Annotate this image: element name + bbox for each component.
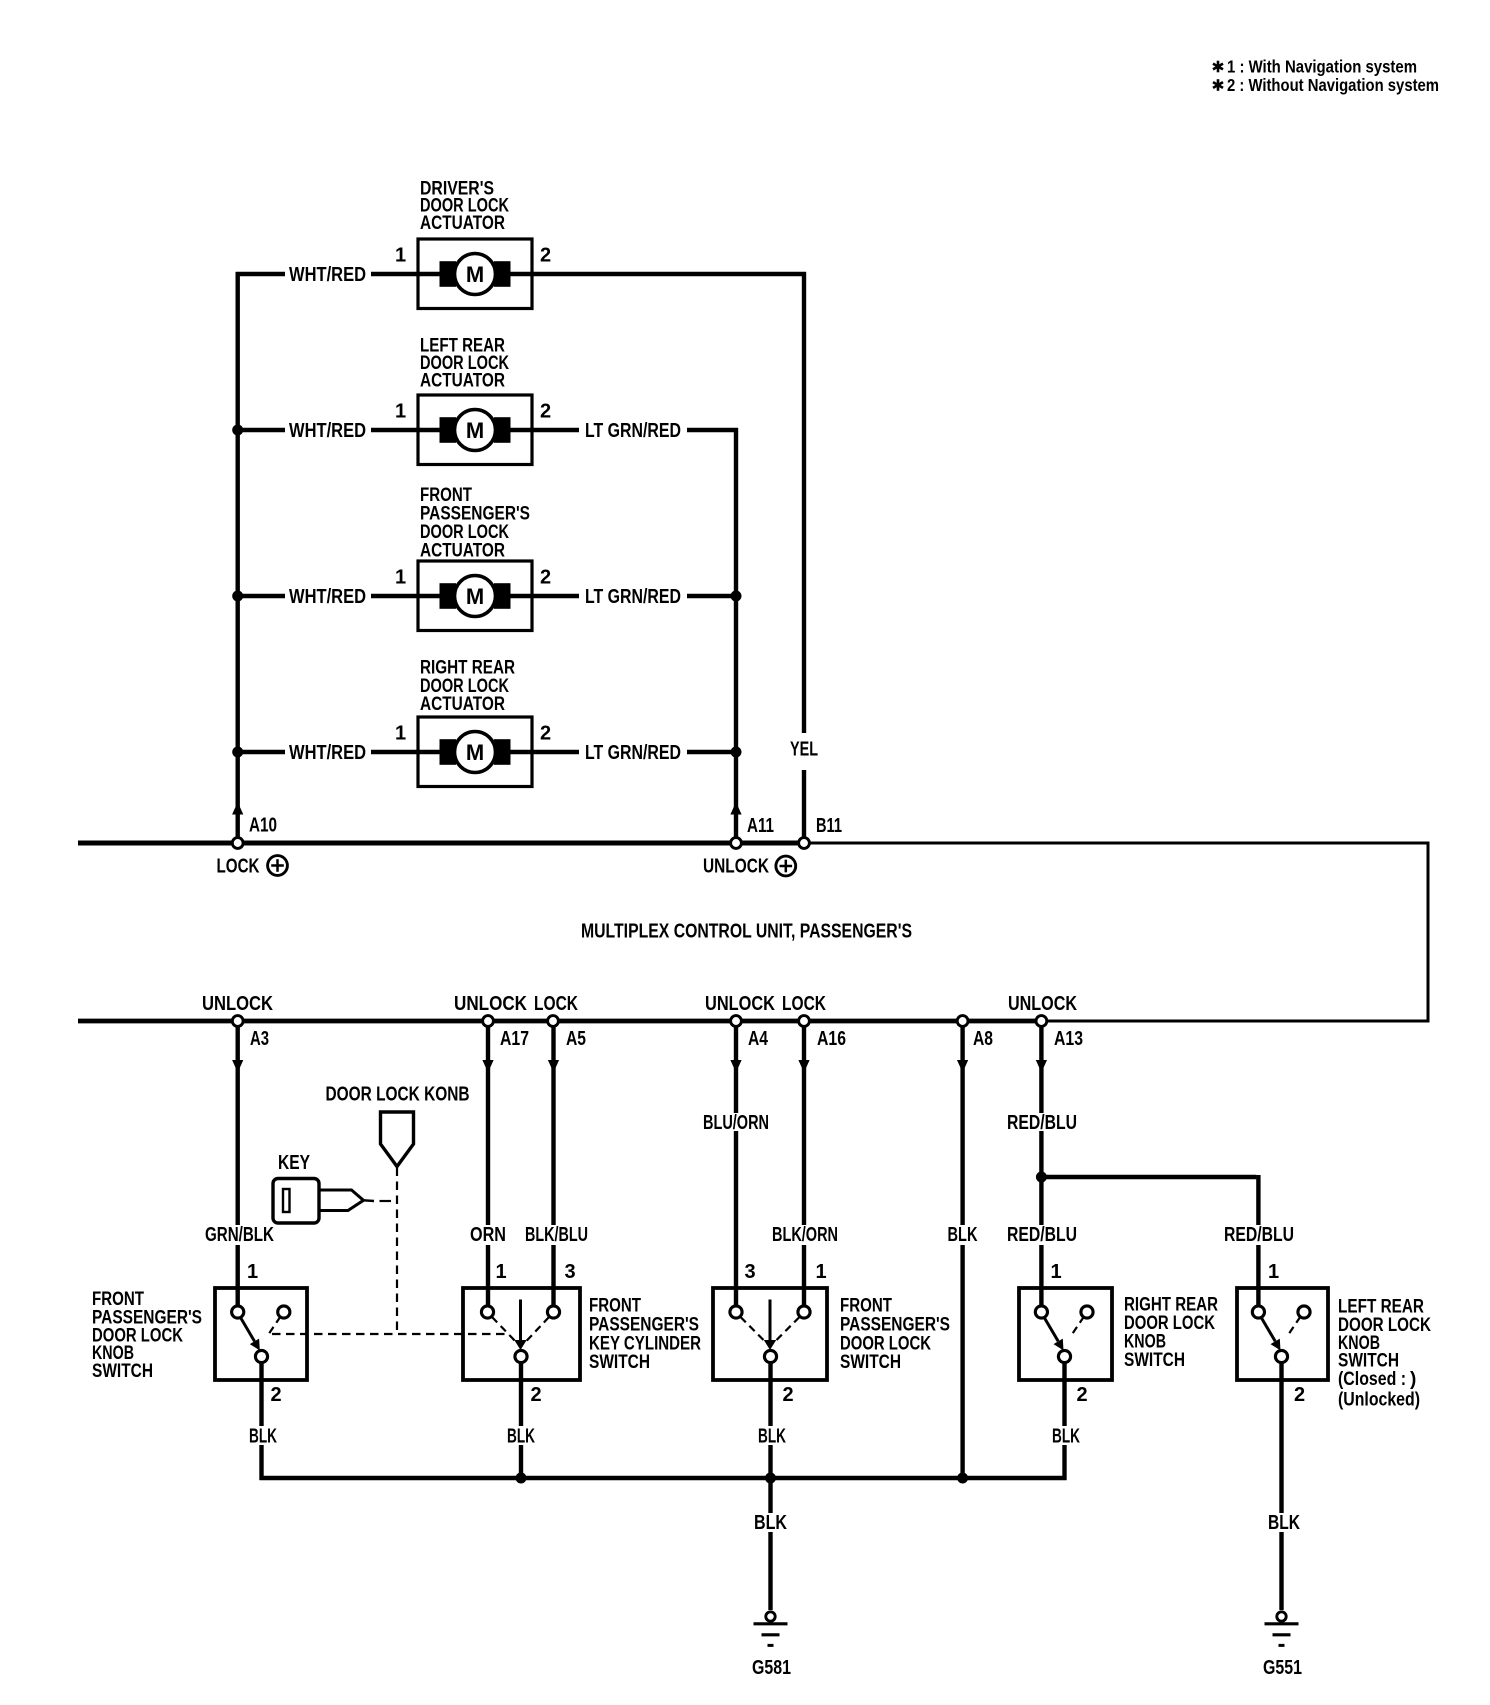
svg-text:YEL: YEL xyxy=(790,739,818,761)
svg-text:LOCK: LOCK xyxy=(217,856,260,878)
svg-text:): ) xyxy=(1410,1369,1416,1390)
motor: front passenger's door lock actuator M xyxy=(418,561,532,631)
svg-text:2: 2 xyxy=(1076,1384,1087,1406)
svg-text:BLK/BLU: BLK/BLU xyxy=(525,1224,588,1246)
junction xyxy=(516,1473,527,1484)
svg-text:DOOR LOCK KONB: DOOR LOCK KONB xyxy=(326,1084,470,1106)
junction xyxy=(731,747,742,758)
label WHT/RED xyxy=(289,420,366,442)
pin 2 xyxy=(540,723,551,745)
pin 1 xyxy=(395,567,406,589)
junction xyxy=(232,591,243,602)
label RED/BLU xyxy=(1224,1224,1294,1246)
svg-text:BLK: BLK xyxy=(249,1426,277,1448)
svg-text:SWITCH: SWITCH xyxy=(92,1361,153,1382)
svg-text:MULTIPLEX CONTROL UNIT, PASSEN: MULTIPLEX CONTROL UNIT, PASSENGER'S xyxy=(581,921,912,943)
mechanical linkage (dashed) knob/key to switches xyxy=(272,1168,508,1335)
svg-text:M: M xyxy=(466,584,484,609)
wire BLK (A8 to ground bus) xyxy=(960,1027,964,1476)
svg-text:ACTUATOR: ACTUATOR xyxy=(420,694,505,715)
svg-text:UNLOCK: UNLOCK xyxy=(202,993,273,1015)
pin 1 xyxy=(815,1261,826,1283)
wire BLU/ORN (A4 to door lock switch pin 3) xyxy=(734,1027,738,1306)
svg-text:UNLOCK: UNLOCK xyxy=(1008,993,1077,1015)
label DOOR LOCK KONB xyxy=(326,1084,470,1106)
label LT GRN/RED xyxy=(585,586,681,608)
svg-text:2: 2 xyxy=(270,1384,281,1406)
svg-text:1: 1 xyxy=(1268,1261,1279,1283)
svg-text:BLU/ORN: BLU/ORN xyxy=(703,1112,769,1134)
svg-text:1: 1 xyxy=(395,245,406,267)
node A10 xyxy=(232,815,277,849)
svg-text:1: 1 xyxy=(395,723,406,745)
svg-text:A11: A11 xyxy=(747,815,774,837)
ground G581 xyxy=(752,1612,791,1679)
switch: front passenger's key cylinder switch xyxy=(463,1288,580,1380)
node A13 xyxy=(1036,1016,1083,1050)
multiplex control unit, passenger's (box) xyxy=(78,843,1430,1021)
label BLU/ORN xyxy=(703,1112,769,1134)
svg-text:ACTUATOR: ACTUATOR xyxy=(420,371,505,392)
label UNLOCK xyxy=(705,993,775,1015)
svg-text:FRONT: FRONT xyxy=(840,1295,892,1316)
flow arrow xyxy=(1036,1060,1047,1073)
pin 2 xyxy=(540,245,551,267)
svg-text:1: 1 xyxy=(395,567,406,589)
pin 2 xyxy=(782,1384,793,1406)
label YEL xyxy=(790,739,818,761)
label GRN/BLK xyxy=(205,1224,274,1246)
svg-text:RED/BLU: RED/BLU xyxy=(1007,1224,1077,1246)
svg-text:RED/BLU: RED/BLU xyxy=(1224,1224,1294,1246)
wire WHT/RED xyxy=(236,594,418,598)
svg-text:LOCK: LOCK xyxy=(782,993,826,1015)
wire BLK (door lock switch pin 2 to ground G581) xyxy=(768,1363,772,1610)
svg-text:2 : Without Navigation system: 2 : Without Navigation system xyxy=(1227,75,1439,95)
svg-text:LT GRN/RED: LT GRN/RED xyxy=(585,742,681,764)
note: navigation system legend xyxy=(1213,57,1439,96)
svg-text:2: 2 xyxy=(540,245,551,267)
wire BLK (right rear knob switch pin 2 to ground bus) xyxy=(1062,1363,1066,1480)
svg-text:1: 1 xyxy=(495,1261,506,1283)
svg-text:KEY CYLINDER: KEY CYLINDER xyxy=(589,1333,701,1354)
label left rear door lock knob switch name xyxy=(1338,1297,1431,1411)
wire BLK (knob switch pin 2 to ground bus) xyxy=(259,1363,263,1480)
label BLK xyxy=(948,1224,978,1246)
flow arrow xyxy=(548,1060,559,1073)
svg-text:A10: A10 xyxy=(249,815,277,837)
wire WHT/RED xyxy=(236,750,418,754)
svg-text:WHT/RED: WHT/RED xyxy=(289,586,366,608)
wire BLK/BLU (A5 to key cylinder pin 3) xyxy=(551,1027,555,1306)
pin 2 xyxy=(270,1384,281,1406)
node A8 xyxy=(957,1016,993,1050)
svg-text:WHT/RED: WHT/RED xyxy=(289,264,366,286)
label front passenger's key cylinder switch name xyxy=(589,1295,701,1373)
wire BLK ground bus xyxy=(260,1476,1067,1480)
svg-text:2: 2 xyxy=(530,1384,541,1406)
wire RED/BLU branch to left rear switch xyxy=(1041,1175,1258,1306)
label LT GRN/RED xyxy=(585,742,681,764)
label RED/BLU xyxy=(1007,1112,1077,1134)
flow arrow xyxy=(232,1060,243,1073)
motor: right rear door lock actuator M xyxy=(418,717,532,787)
label UNLOCK xyxy=(202,993,273,1015)
label front passenger's door lock knob switch name xyxy=(92,1289,202,1382)
node A17 xyxy=(483,1016,529,1050)
svg-text:UNLOCK: UNLOCK xyxy=(703,856,769,878)
pin 1 xyxy=(395,245,406,267)
pin 1 xyxy=(247,1261,258,1283)
label RED/BLU xyxy=(1007,1224,1077,1246)
wire RED/BLU (A13 to rear knob switches) xyxy=(1039,1027,1043,1306)
wire WHT/RED xyxy=(236,272,418,276)
junction xyxy=(1036,1172,1047,1183)
door lock knob symbol xyxy=(381,1112,414,1167)
label LOCK xyxy=(782,993,826,1015)
svg-text:A16: A16 xyxy=(817,1028,846,1050)
pin 2 xyxy=(540,567,551,589)
svg-text:A3: A3 xyxy=(250,1028,269,1050)
motor: left rear door lock actuator M xyxy=(418,395,532,465)
pin 3 xyxy=(564,1261,575,1283)
svg-text:M: M xyxy=(466,262,484,287)
label right rear door lock knob switch name xyxy=(1124,1295,1218,1372)
label WHT/RED xyxy=(289,264,366,286)
svg-text:SWITCH: SWITCH xyxy=(840,1352,901,1373)
label LOCK + xyxy=(217,856,288,878)
label WHT/RED xyxy=(289,586,366,608)
svg-text:LT GRN/RED: LT GRN/RED xyxy=(585,420,681,442)
flow arrow xyxy=(730,1060,741,1073)
junction xyxy=(232,747,243,758)
wire LT GRN/RED xyxy=(532,428,738,432)
pin 1 xyxy=(495,1261,506,1283)
wire WHT/RED lock feed (A10 column) xyxy=(235,272,239,837)
pin 2 xyxy=(1294,1384,1305,1406)
flow arrow xyxy=(482,1060,493,1073)
svg-text:A8: A8 xyxy=(973,1028,993,1050)
wire LT GRN/RED xyxy=(532,594,738,598)
node A3 xyxy=(232,1016,269,1050)
svg-text:PASSENGER'S: PASSENGER'S xyxy=(589,1314,699,1335)
svg-text:RED/BLU: RED/BLU xyxy=(1007,1112,1077,1134)
label BLK xyxy=(754,1512,787,1534)
flow arrow xyxy=(957,1060,968,1073)
svg-text:1: 1 xyxy=(815,1261,826,1283)
label BLK xyxy=(507,1426,535,1448)
svg-text:WHT/RED: WHT/RED xyxy=(289,742,366,764)
svg-text:PASSENGER'S: PASSENGER'S xyxy=(840,1314,950,1335)
junction xyxy=(731,591,742,602)
pin 2 xyxy=(1076,1384,1087,1406)
label driver's door lock actuator name xyxy=(420,178,509,233)
pin 1 xyxy=(1050,1261,1061,1283)
svg-text:A17: A17 xyxy=(500,1028,529,1050)
svg-text:SWITCH: SWITCH xyxy=(1124,1350,1185,1371)
svg-text:1: 1 xyxy=(247,1261,258,1283)
flow arrow at A10 xyxy=(232,802,243,815)
wire LT GRN/RED unlock collector (A11 column) xyxy=(734,428,738,837)
ground G551 xyxy=(1263,1612,1302,1679)
label BLK xyxy=(758,1426,786,1448)
key symbol xyxy=(273,1179,374,1224)
node A5 xyxy=(548,1016,586,1050)
label BLK xyxy=(249,1426,277,1448)
flow arrow at A11 xyxy=(730,802,741,815)
label ORN xyxy=(470,1224,506,1246)
label KEY xyxy=(278,1152,311,1174)
svg-text:DOOR LOCK: DOOR LOCK xyxy=(840,1333,931,1354)
svg-text:B11: B11 xyxy=(816,815,842,837)
svg-text:KEY: KEY xyxy=(278,1152,311,1174)
wire LT GRN/RED xyxy=(532,750,738,754)
flow arrow xyxy=(798,1060,809,1073)
pin 1 xyxy=(1268,1261,1279,1283)
svg-text:M: M xyxy=(466,740,484,765)
svg-text:BLK: BLK xyxy=(1052,1426,1080,1448)
junction xyxy=(232,425,243,436)
svg-text:WHT/RED: WHT/RED xyxy=(289,420,366,442)
switch: front passenger's door lock switch xyxy=(713,1288,827,1380)
label LT GRN/RED xyxy=(585,420,681,442)
svg-text:ACTUATOR: ACTUATOR xyxy=(420,541,505,562)
wire BLK (left rear knob switch pin 2 to ground G551) xyxy=(1279,1363,1283,1610)
label right rear door lock actuator name xyxy=(420,658,515,715)
label front passenger's door lock actuator name xyxy=(420,485,530,562)
svg-text:BLK: BLK xyxy=(948,1224,978,1246)
svg-text:FRONT: FRONT xyxy=(589,1295,641,1316)
label UNLOCK xyxy=(454,993,527,1015)
wire BLK/ORN (A16 to door lock switch pin 1) xyxy=(802,1027,806,1306)
wire WHT/RED xyxy=(236,428,418,432)
pin 3 xyxy=(744,1261,755,1283)
label BLK/BLU xyxy=(525,1224,588,1246)
svg-text:ACTUATOR: ACTUATOR xyxy=(420,213,505,234)
svg-text:(Unlocked): (Unlocked) xyxy=(1338,1390,1420,1411)
svg-text:3: 3 xyxy=(564,1261,575,1283)
pin 1 xyxy=(395,401,406,423)
svg-text:A4: A4 xyxy=(748,1028,769,1050)
label MULTIPLEX CONTROL UNIT, PASSENGER'S xyxy=(581,921,912,943)
node A11 xyxy=(731,815,774,848)
svg-text:1 : With Navigation system: 1 : With Navigation system xyxy=(1227,57,1417,77)
junction xyxy=(765,1473,776,1484)
wire YEL (driver actuator to B11) xyxy=(532,272,806,837)
node A16 xyxy=(799,1016,846,1050)
svg-text:1: 1 xyxy=(395,401,406,423)
svg-text:BLK: BLK xyxy=(758,1426,786,1448)
pin 1 xyxy=(395,723,406,745)
wire BLK (key cylinder pin 2 to ground bus) xyxy=(519,1363,523,1476)
svg-text:G581: G581 xyxy=(752,1657,791,1679)
motor: driver's door lock actuator M xyxy=(418,239,532,309)
svg-text:3: 3 xyxy=(744,1261,755,1283)
svg-text:LOCK: LOCK xyxy=(534,993,578,1015)
svg-text:UNLOCK: UNLOCK xyxy=(454,993,527,1015)
svg-text:1: 1 xyxy=(1050,1261,1061,1283)
label LOCK xyxy=(534,993,578,1015)
svg-text:2: 2 xyxy=(540,723,551,745)
wire ORN (A17 to key cylinder pin 1) xyxy=(486,1027,490,1306)
label UNLOCK + xyxy=(703,856,796,878)
svg-text:A5: A5 xyxy=(566,1028,586,1050)
svg-text:BLK: BLK xyxy=(754,1512,787,1534)
switch: front passenger's door lock knob switch xyxy=(215,1288,307,1380)
svg-text:SWITCH: SWITCH xyxy=(589,1352,650,1373)
svg-text:BLK: BLK xyxy=(507,1426,535,1448)
svg-text:GRN/BLK: GRN/BLK xyxy=(205,1224,274,1246)
svg-text:(Closed :: (Closed : xyxy=(1338,1369,1406,1390)
node B11 xyxy=(799,815,842,848)
label BLK xyxy=(1268,1512,1300,1534)
wire GRN/BLK (A3 to knob switch pin 1) xyxy=(235,1027,239,1306)
svg-text:BLK: BLK xyxy=(1268,1512,1300,1534)
pin 2 xyxy=(540,401,551,423)
label BLK xyxy=(1052,1426,1080,1448)
svg-text:2: 2 xyxy=(782,1384,793,1406)
svg-text:2: 2 xyxy=(1294,1384,1305,1406)
svg-text:M: M xyxy=(466,418,484,443)
svg-text:BLK/ORN: BLK/ORN xyxy=(772,1224,838,1246)
label left rear door lock actuator name xyxy=(420,336,509,392)
switch: right rear door lock knob switch xyxy=(1019,1288,1112,1380)
svg-text:G551: G551 xyxy=(1263,1657,1302,1679)
svg-text:2: 2 xyxy=(540,567,551,589)
node A4 xyxy=(731,1016,769,1050)
svg-text:A13: A13 xyxy=(1054,1028,1083,1050)
svg-text:2: 2 xyxy=(540,401,551,423)
label WHT/RED xyxy=(289,742,366,764)
label BLK/ORN xyxy=(772,1224,838,1246)
junction xyxy=(957,1473,968,1484)
svg-text:ORN: ORN xyxy=(470,1224,506,1246)
switch: left rear door lock knob switch xyxy=(1237,1288,1328,1380)
label front passenger's door lock switch name xyxy=(840,1295,950,1373)
svg-text:UNLOCK: UNLOCK xyxy=(705,993,775,1015)
pin 2 xyxy=(530,1384,541,1406)
label UNLOCK xyxy=(1008,993,1077,1015)
svg-text:LT GRN/RED: LT GRN/RED xyxy=(585,586,681,608)
